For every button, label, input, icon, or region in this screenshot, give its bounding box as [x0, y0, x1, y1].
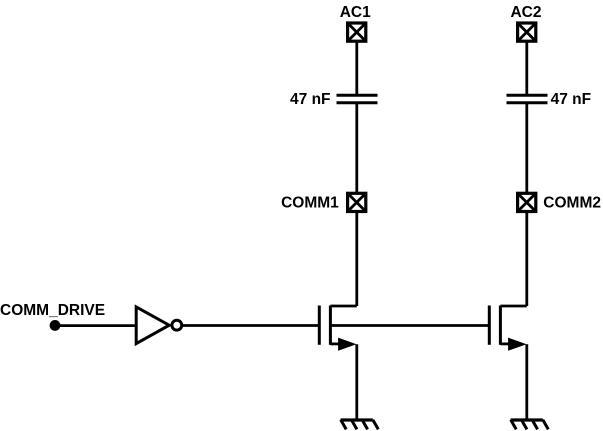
- svg-text:AC1: AC1: [340, 4, 371, 21]
- node COMM_DRIVE terminal dot: [50, 320, 61, 331]
- ground (left): [341, 420, 379, 430]
- capacitor 47 nF (left): [337, 95, 378, 103]
- wire Q1 gate rail to Q2 gate: [330, 324, 489, 327]
- wire capacitor to COMM2: [525, 103, 528, 194]
- wire Q1 source to ground: [355, 344, 358, 420]
- svg-text:COMM1: COMM1: [281, 195, 339, 212]
- pin COMM2: [518, 193, 536, 211]
- transistor Q1: [319, 306, 357, 351]
- pin COMM1: [348, 193, 366, 211]
- pin AC2: [518, 23, 536, 41]
- wire AC2 to capacitor (right column): [525, 41, 528, 95]
- pin AC1: [348, 23, 366, 41]
- inverter U1: [136, 307, 182, 344]
- ground (right): [511, 420, 549, 430]
- transistor Q2: [489, 306, 527, 351]
- wire COMM1 to Q1 drain: [355, 212, 358, 307]
- wire inverter output to Q1 gate: [182, 324, 319, 327]
- wire COMM2 to Q2 drain: [525, 212, 528, 307]
- svg-text:COMM2: COMM2: [543, 195, 601, 212]
- capacitor 47 nF (right): [507, 95, 548, 103]
- svg-text:AC2: AC2: [510, 4, 541, 21]
- wire Q2 source to ground: [525, 344, 528, 420]
- wire AC1 to capacitor (left column): [355, 41, 358, 95]
- svg-text:47 nF: 47 nF: [290, 91, 330, 108]
- svg-text:COMM_DRIVE: COMM_DRIVE: [0, 302, 105, 319]
- svg-text:47 nF: 47 nF: [551, 91, 591, 108]
- wire COMM_DRIVE to inverter input: [55, 324, 136, 327]
- wire capacitor to COMM1: [355, 103, 358, 194]
